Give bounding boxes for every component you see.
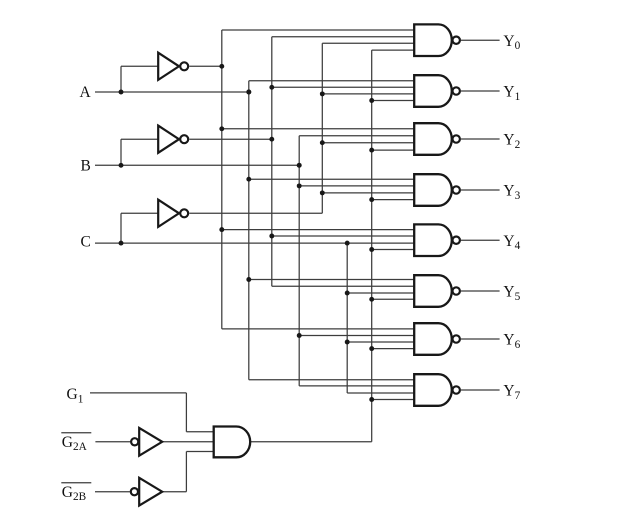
svg-text:C: C [81, 233, 91, 250]
svg-text:A: A [80, 84, 92, 101]
svg-text:B: B [81, 158, 91, 175]
